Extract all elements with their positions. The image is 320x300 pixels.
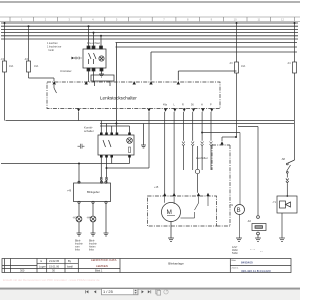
svg-text:B: B <box>237 208 241 214</box>
svg-text:-K2: -K2 <box>247 220 252 223</box>
svg-text:H: H <box>201 103 203 106</box>
svg-text:300: 300 <box>20 269 25 273</box>
svg-text:bardl: bardl <box>67 264 73 268</box>
svg-text:-F2: -F2 <box>24 57 28 61</box>
svg-text:R: R <box>182 103 184 106</box>
svg-text:Blinkgeber: Blinkgeber <box>87 190 100 194</box>
svg-text:Lenkstockschalter: Lenkstockschalter <box>100 96 137 101</box>
svg-text:16A: 16A <box>34 65 39 68</box>
svg-text:-F1: -F1 <box>1 57 5 61</box>
svg-text:16A: 16A <box>241 65 246 68</box>
svg-text:Blinkanlage: Blinkanlage <box>168 262 184 266</box>
svg-text:49a: 49a <box>163 103 168 106</box>
svg-text:~ . ~: ~ . ~ <box>250 248 256 251</box>
svg-text:-Y1: -Y1 <box>272 201 277 204</box>
svg-text:1 leuchtet: 1 leuchtet <box>87 41 100 45</box>
svg-text:8495409: 8495409 <box>241 261 253 265</box>
svg-text:LENKSTOCK KATA: LENKSTOCK KATA <box>91 258 116 262</box>
svg-text:54Ah: 54Ah <box>232 252 238 255</box>
svg-text:320-420.11.B.014-020: 320-420.11.B.014-020 <box>241 269 271 273</box>
svg-text:Luger: Luger <box>39 264 46 268</box>
svg-text:funkt: funkt <box>49 49 55 52</box>
svg-text:~ -: ~ - <box>260 250 263 253</box>
svg-text:Zeichn.: Zeichn. <box>232 267 240 269</box>
svg-text:M: M <box>167 209 172 216</box>
svg-text:+49: +49 <box>67 190 72 193</box>
svg-text:15.01.06: 15.01.06 <box>49 264 60 268</box>
svg-text:-H3: -H3 <box>73 216 78 219</box>
svg-text:1 / 25: 1 / 25 <box>103 289 113 294</box>
svg-text:links: links <box>89 249 95 252</box>
svg-text:21.02.05: 21.02.05 <box>49 259 60 263</box>
svg-text:+15: +15 <box>154 186 159 189</box>
svg-text:schalter: schalter <box>84 129 94 133</box>
svg-text:Erstellt mit der Demoversion v: Erstellt mit der Demoversion von PDF Ann… <box>3 278 100 282</box>
svg-text:-S8: -S8 <box>281 158 286 161</box>
svg-text:-H4: -H4 <box>87 216 92 219</box>
svg-text:-H1: -H1 <box>229 204 234 207</box>
svg-text:m: m <box>40 260 42 263</box>
svg-text:links: links <box>75 249 81 252</box>
svg-text:Blatt 1: Blatt 1 <box>95 269 103 273</box>
svg-text:Blatt: Blatt <box>232 259 237 262</box>
svg-text:16A: 16A <box>9 65 14 68</box>
svg-text:LEMKEN: LEMKEN <box>96 264 108 268</box>
svg-text:Umrüster: Umrüster <box>60 69 72 73</box>
